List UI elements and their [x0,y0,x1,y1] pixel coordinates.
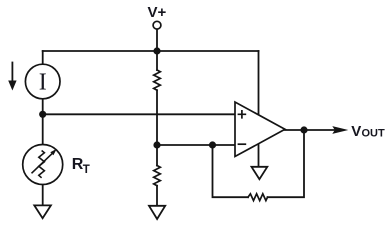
svg-text:I: I [39,69,47,95]
svg-text:OUT: OUT [362,127,386,139]
svg-text:T: T [83,164,90,176]
svg-text:V: V [351,123,361,140]
svg-text:V+: V+ [148,4,167,21]
